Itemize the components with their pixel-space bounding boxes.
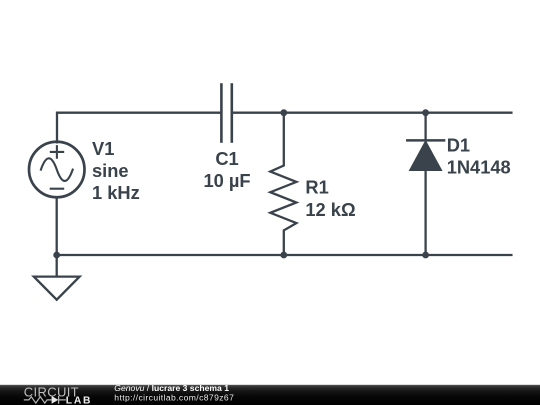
capacitor C1 — [221, 85, 231, 142]
node D1 bottom junction — [422, 252, 429, 259]
CircuitLab logo — [24, 384, 92, 405]
svg-text:C1: C1 — [215, 148, 238, 169]
svg-text:http://circuitlab.com/c879z67: http://circuitlab.com/c879z67 — [114, 393, 234, 403]
wire V1 bottom to ground — [56, 197, 58, 276]
node R1 bottom junction — [280, 252, 287, 259]
wire top net (C1 right plate to right end) — [233, 112, 511, 114]
svg-text:Genovu / lucrare 3 schema 1: Genovu / lucrare 3 schema 1 — [114, 383, 229, 393]
svg-text:1 kHz: 1 kHz — [92, 182, 140, 203]
svg-text:10 µF: 10 µF — [203, 170, 250, 191]
svg-text:R1: R1 — [305, 177, 328, 198]
node V1/ground junction — [53, 252, 60, 259]
node D1 top junction — [422, 109, 429, 116]
svg-text:12 kΩ: 12 kΩ — [305, 199, 355, 220]
voltage source V1 — [29, 142, 85, 198]
resistor R1 — [270, 113, 296, 255]
label D1 name and value — [447, 135, 511, 178]
svg-text:V1: V1 — [92, 138, 114, 159]
diode D1 — [407, 113, 444, 255]
label R1 name and value — [305, 177, 355, 221]
wire top net (V1 top to C1 left plate) — [57, 113, 220, 143]
wire bottom net — [57, 254, 512, 256]
footer bar — [0, 385, 540, 405]
node R1 top junction — [280, 109, 287, 116]
svg-text:1N4148: 1N4148 — [447, 157, 511, 178]
ground — [34, 277, 80, 300]
svg-text:LAB: LAB — [66, 395, 92, 405]
label V1 name and value — [92, 138, 140, 203]
label C1 name and value — [203, 148, 250, 191]
svg-text:sine: sine — [92, 160, 129, 181]
svg-text:D1: D1 — [447, 135, 470, 156]
